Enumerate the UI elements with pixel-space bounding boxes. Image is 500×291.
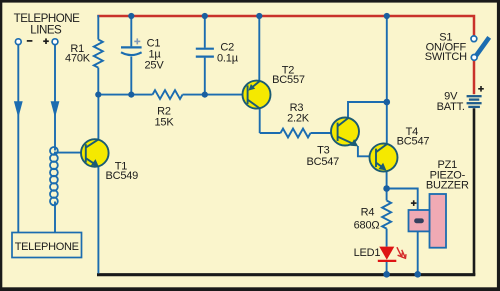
svg-text:BC547: BC547 — [306, 156, 339, 168]
svg-text:2.2K: 2.2K — [287, 112, 310, 124]
svg-text:15K: 15K — [155, 116, 175, 128]
svg-text:R4: R4 — [361, 207, 375, 219]
svg-text:TELEPHONE: TELEPHONE — [15, 241, 79, 253]
svg-text:BC549: BC549 — [105, 170, 138, 182]
svg-text:680Ω: 680Ω — [354, 219, 380, 231]
svg-text:BC547: BC547 — [397, 136, 430, 148]
svg-text:T3: T3 — [317, 144, 330, 156]
svg-text:LINES: LINES — [30, 24, 62, 37]
svg-text:0.1µ: 0.1µ — [217, 52, 239, 64]
svg-text:BUZZER: BUZZER — [426, 180, 469, 192]
svg-text:BC557: BC557 — [272, 74, 305, 86]
svg-text:LED1: LED1 — [354, 247, 381, 259]
svg-text:BATT.: BATT. — [437, 101, 465, 113]
svg-text:SWITCH: SWITCH — [425, 51, 467, 63]
svg-text:470K: 470K — [65, 53, 91, 65]
svg-text:25V: 25V — [145, 59, 165, 71]
